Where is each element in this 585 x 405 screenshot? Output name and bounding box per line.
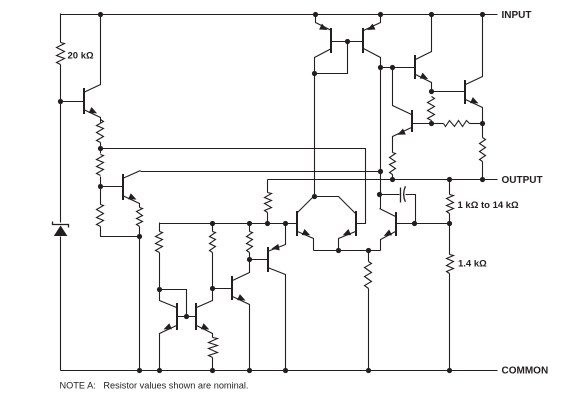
wire output line <box>268 179 498 181</box>
wire common rail <box>61 370 498 372</box>
node common T13 <box>247 368 252 373</box>
transistor Q1 <box>84 15 101 123</box>
wire diff emitters <box>314 250 381 252</box>
node output emitter junction <box>480 121 485 126</box>
node common mirror2 left <box>157 368 162 373</box>
wire diff collector tie <box>315 197 356 214</box>
note text <box>60 381 249 391</box>
node divider top <box>447 177 452 182</box>
node diff emitter mid <box>336 248 341 253</box>
wire R16 bottom <box>267 213 269 224</box>
resistor R2 <box>97 155 104 176</box>
wire Q2 base <box>101 186 123 188</box>
wire output base <box>432 91 465 93</box>
wire Q2 collector line <box>141 171 381 173</box>
wire R12 left <box>432 123 444 125</box>
resistor R5 <box>156 232 163 253</box>
svg-text:OUTPUT: OUTPUT <box>502 175 543 186</box>
resistor R16 output sense <box>265 193 272 213</box>
wire R9 top <box>368 251 370 262</box>
resistor R9 tail <box>365 262 372 289</box>
transistor mirror2 right <box>196 289 213 338</box>
wire R7 low <box>249 253 251 260</box>
svg-text:20 kΩ: 20 kΩ <box>68 51 94 62</box>
wire mirror right collector down <box>380 68 382 209</box>
wire mirror left collector down <box>314 74 316 197</box>
label INPUT <box>502 10 532 21</box>
node Q2 emitter junction <box>137 234 142 239</box>
node mirror2 right collector <box>210 286 215 291</box>
wire R3 to Q2 emitter <box>101 227 140 237</box>
node input-output transistor <box>480 12 485 17</box>
resistor R8 <box>209 338 218 358</box>
svg-text:1 kΩ to 14 kΩ: 1 kΩ to 14 kΩ <box>458 200 520 211</box>
resistor R15 1.4k <box>447 255 454 274</box>
wire limiter base <box>412 123 432 125</box>
resistor 20k <box>57 43 65 65</box>
resistor R1 <box>97 120 104 143</box>
wire left rail top <box>60 14 62 43</box>
transistor error amp <box>380 209 397 251</box>
node ref r6 <box>210 221 215 226</box>
transistor T13 <box>232 260 250 371</box>
label 1.4k <box>458 259 487 270</box>
wire T13 base <box>213 288 232 290</box>
wire Q1 base <box>61 101 84 103</box>
wire Q2 emitter to common <box>139 227 141 371</box>
node T13 collector tap <box>247 257 252 262</box>
transistor mirror2 left <box>160 290 178 371</box>
resistor R11 predriver emitter <box>428 97 435 121</box>
wire T14 base <box>250 259 268 261</box>
resistor R3 <box>97 205 104 227</box>
wire divider bottom <box>449 274 451 371</box>
node Q2 line end <box>378 169 383 174</box>
resistor R7 <box>247 232 253 253</box>
capacitor C1 <box>380 186 416 223</box>
transistor predriver <box>415 15 432 93</box>
wire ref rail <box>160 223 297 225</box>
node mirror left collector <box>312 71 317 76</box>
transistor PNP mirror left <box>315 15 332 74</box>
resistor R6 <box>210 232 216 253</box>
wire divider top <box>449 180 451 195</box>
node divider tap <box>447 221 452 226</box>
wire mirror base tie <box>332 41 364 43</box>
node ref r7 <box>247 221 252 226</box>
node ref pnp emitter <box>283 221 288 226</box>
label 20k <box>68 51 94 62</box>
wire R10 low <box>392 175 394 180</box>
node output emitter res <box>480 177 485 182</box>
node input-mirror right <box>378 12 383 17</box>
svg-text:1.4 kΩ: 1.4 kΩ <box>458 259 487 270</box>
node Q1 base <box>58 99 63 104</box>
wire mirror2 top <box>160 290 187 317</box>
resistor R12 sense <box>444 121 470 127</box>
wire left rail bottom <box>60 237 62 371</box>
label COMMON <box>502 365 549 376</box>
node limiter-resistor output <box>390 177 395 182</box>
wire mirror2 base tie <box>177 316 197 318</box>
node common T14 <box>283 368 288 373</box>
wire R8 low <box>212 358 214 371</box>
node Q2 base tap <box>98 184 103 189</box>
node common Q2 <box>137 368 142 373</box>
wire R2-R3 <box>100 177 102 205</box>
node limiter base <box>429 121 434 126</box>
node mirror right collector <box>378 65 383 70</box>
node common tail <box>366 368 371 373</box>
node first stage tap <box>98 146 103 151</box>
resistor R14 divider top <box>447 195 454 214</box>
wire R16 top <box>267 180 269 193</box>
transistor PNP mirror right <box>363 15 381 68</box>
wire R5 top <box>159 223 161 232</box>
wire R5 low <box>159 253 161 290</box>
transistor diff right <box>339 211 357 251</box>
node input-Q1 collector <box>98 12 103 17</box>
zener diode <box>53 222 69 237</box>
resistor R4 Q2 emitter <box>137 208 143 227</box>
node cap tap <box>377 192 382 197</box>
wire R1-R2 <box>100 143 102 154</box>
wire input rail <box>61 14 498 16</box>
node mirror base <box>345 39 350 44</box>
svg-text:COMMON: COMMON <box>502 365 549 376</box>
wire R9 low <box>368 289 370 371</box>
node diff tail <box>366 248 371 253</box>
wire R12 right <box>470 123 483 125</box>
node mirror2 bases <box>184 314 189 319</box>
node limiter collector tap <box>390 65 395 70</box>
resistor R13 output emitter <box>480 138 486 162</box>
node cap bottom <box>412 221 417 226</box>
wire error base <box>396 223 450 225</box>
wire predriver base <box>381 67 415 69</box>
svg-text:NOTE A: Resistor values show: NOTE A: Resistor values shown are nomina… <box>60 381 249 391</box>
label OUTPUT <box>502 175 543 186</box>
node input-mirror left <box>313 12 318 17</box>
node diff collectors <box>312 194 317 199</box>
node mirror2 left collector <box>157 287 162 292</box>
wire stage1 to diff right base <box>101 149 366 224</box>
wire divider mid <box>449 214 451 255</box>
wire R6 low <box>212 253 214 289</box>
resistor R10 limiter emitter <box>390 153 396 175</box>
wire mirror diode tie <box>315 42 348 74</box>
label 1k to 14k <box>458 200 520 211</box>
node common divider <box>447 368 452 373</box>
transistor limiter <box>393 68 413 153</box>
wire output emitter to line <box>482 124 484 180</box>
node common R8 <box>210 368 215 373</box>
transistor output <box>465 15 483 124</box>
wire left rail mid <box>60 65 62 223</box>
node input-predriver <box>429 12 434 17</box>
node ref r16 <box>265 221 270 226</box>
svg-text:INPUT: INPUT <box>502 10 532 21</box>
transistor Q2 <box>123 171 141 208</box>
wire R6 top <box>212 223 214 232</box>
transistor T14 PNP <box>268 224 286 371</box>
wire R11 low <box>431 121 433 124</box>
node predriver emitter <box>429 89 434 94</box>
wire R7 top <box>249 223 251 232</box>
transistor diff left <box>297 197 314 251</box>
